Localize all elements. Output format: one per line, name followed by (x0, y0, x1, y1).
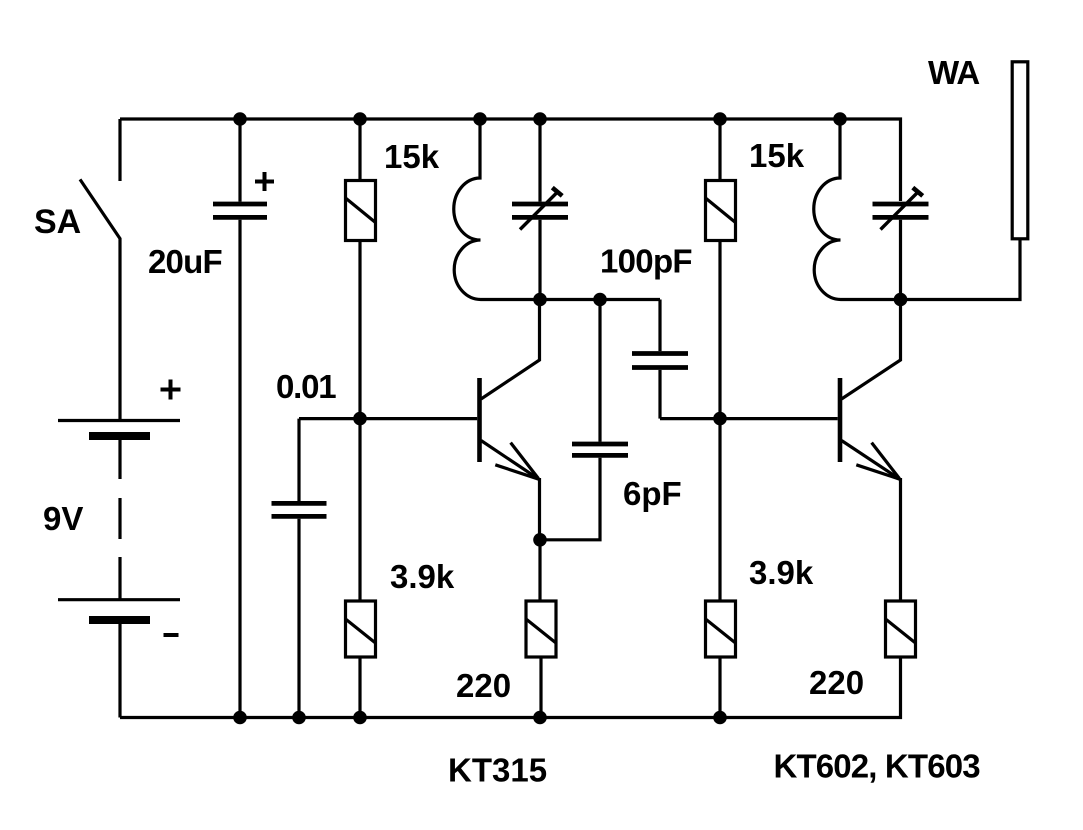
svg-text:9V: 9V (43, 500, 83, 537)
svg-text:100pF: 100pF (600, 243, 692, 280)
svg-text:6pF: 6pF (623, 475, 682, 512)
svg-text:SA: SA (34, 203, 81, 241)
svg-text:3.9k: 3.9k (390, 558, 455, 595)
svg-text:15k: 15k (384, 138, 440, 175)
svg-text:KT602, KT603: KT602, KT603 (774, 748, 981, 785)
svg-text:0.01: 0.01 (276, 368, 336, 405)
svg-text:20uF: 20uF (148, 243, 222, 280)
svg-text:15k: 15k (749, 137, 805, 174)
svg-text:220: 220 (809, 664, 864, 701)
svg-text:220: 220 (456, 667, 511, 704)
svg-text:KT315: KT315 (448, 752, 547, 789)
svg-text:3.9k: 3.9k (749, 554, 814, 591)
svg-text:WA: WA (928, 54, 979, 91)
